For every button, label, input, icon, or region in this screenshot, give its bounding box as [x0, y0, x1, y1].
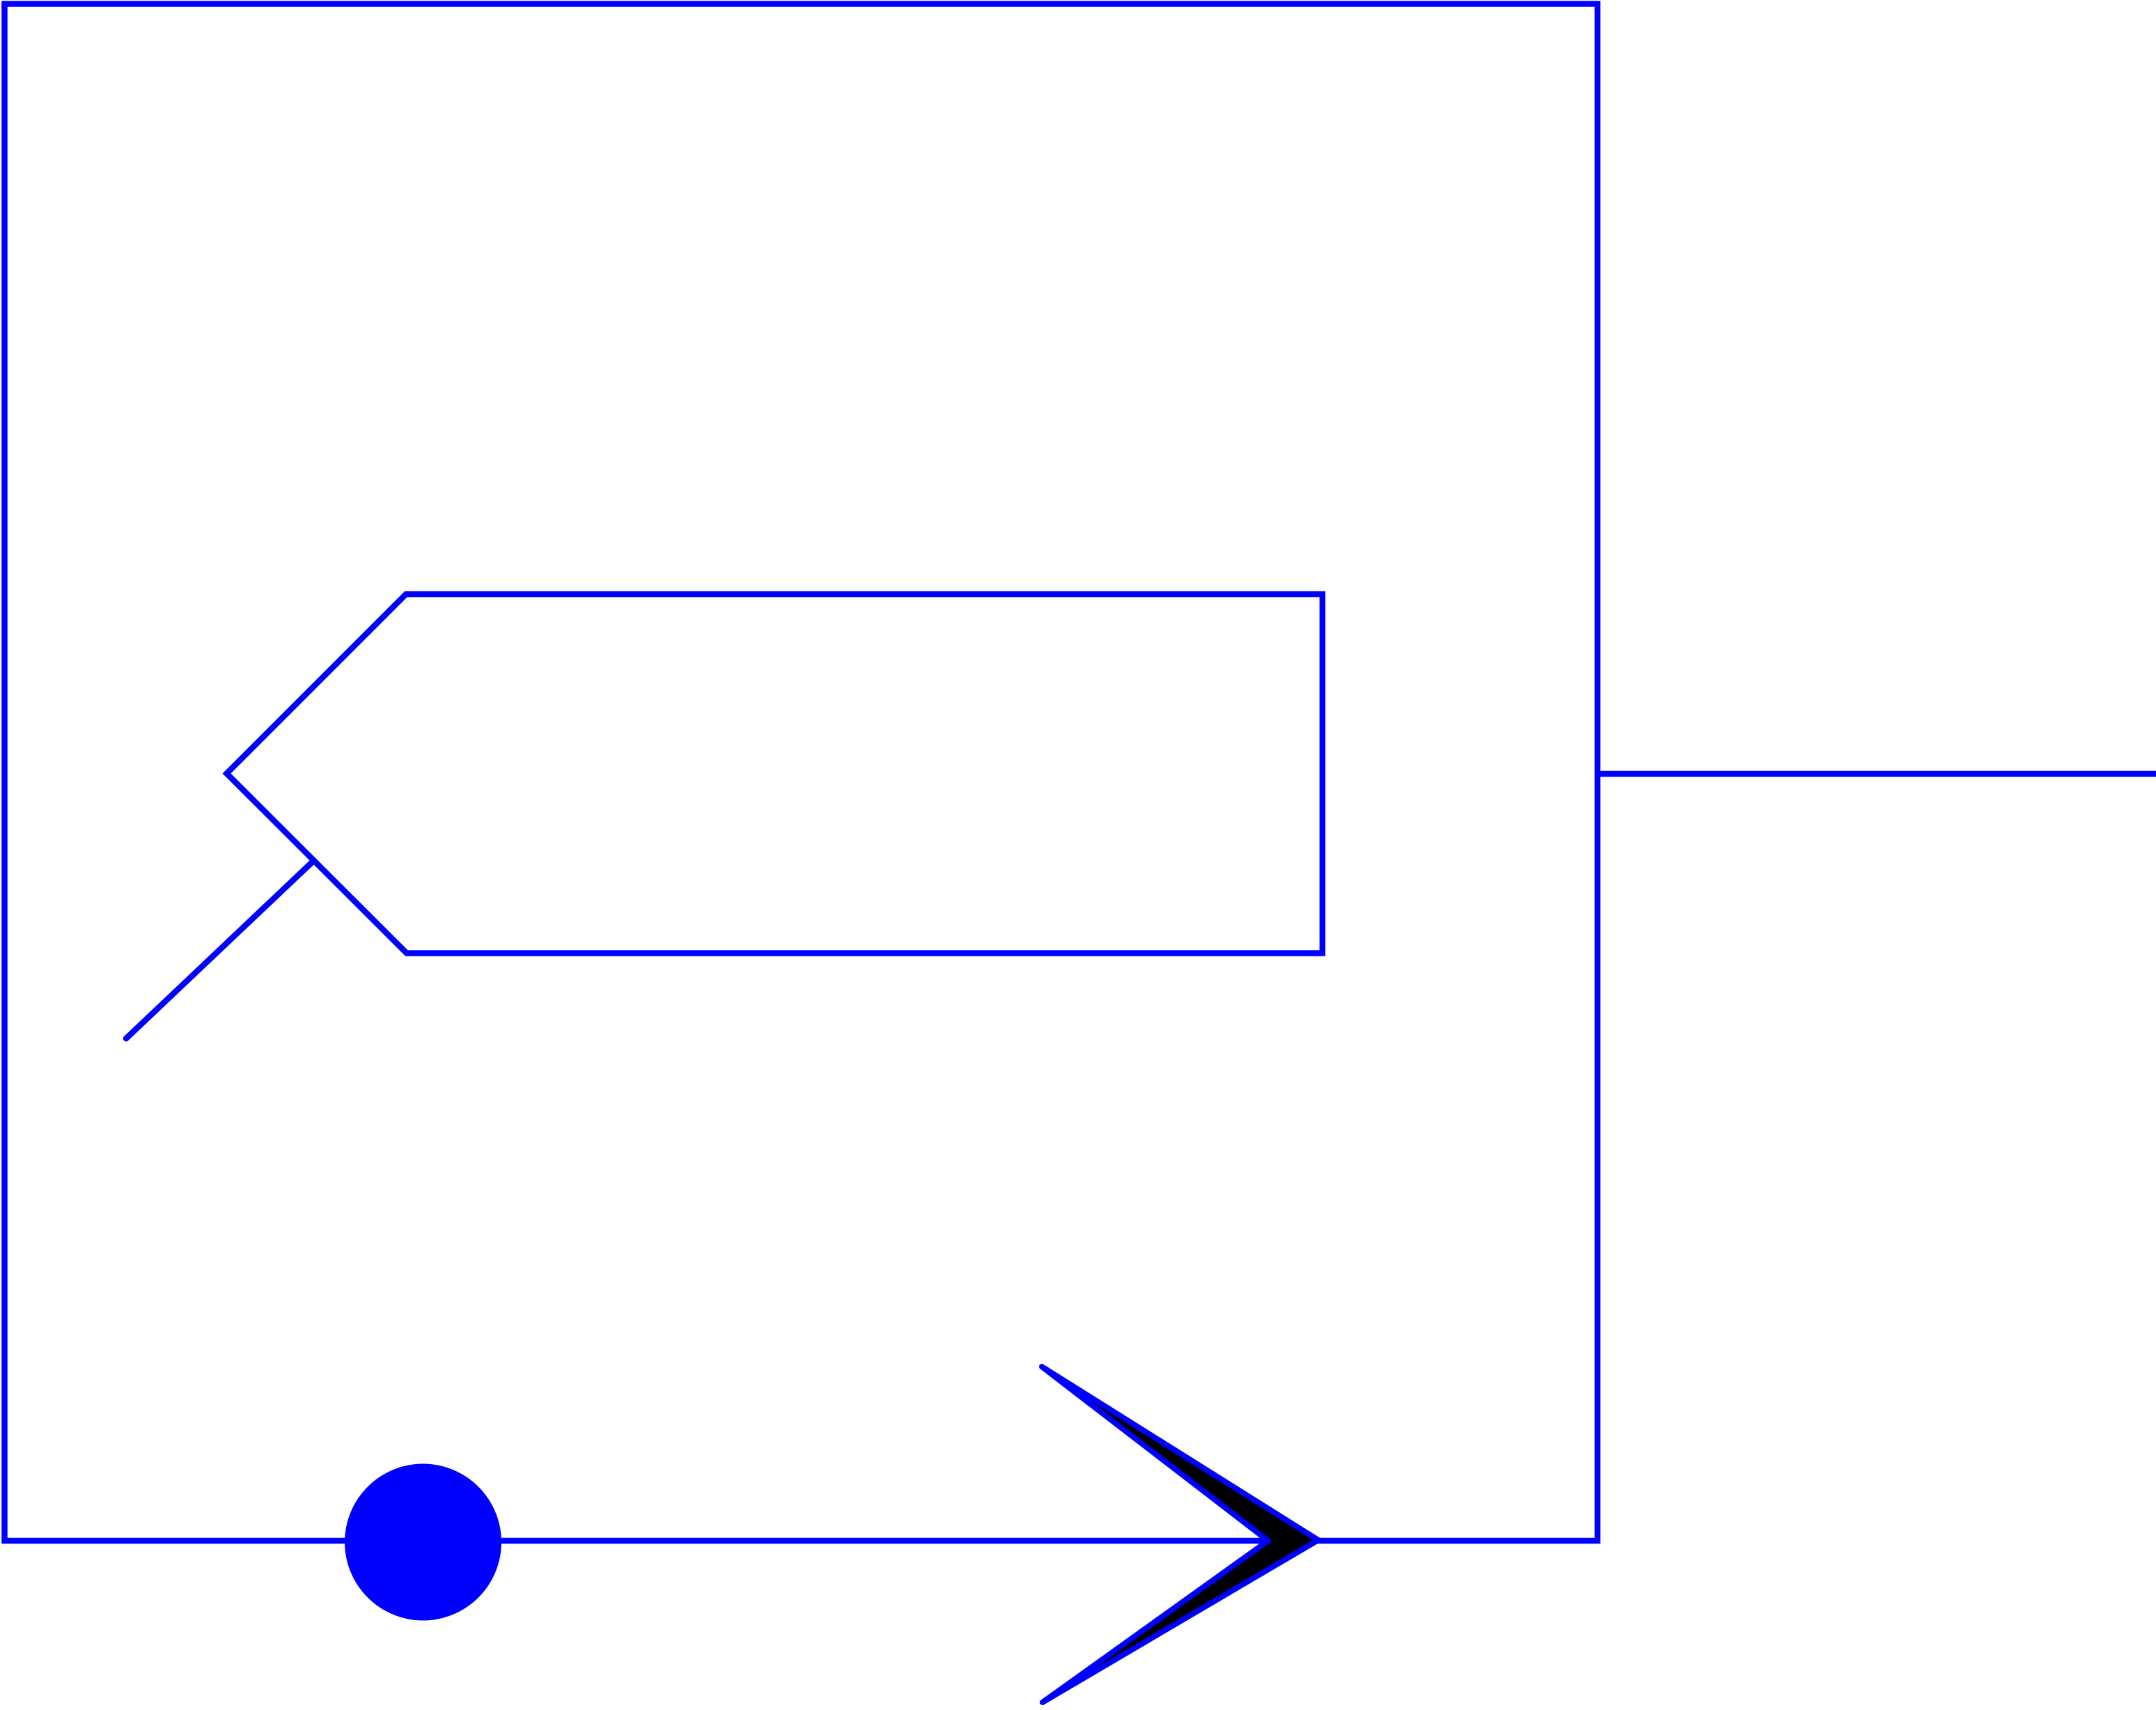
- arrowhead: [1042, 1367, 1318, 1702]
- outer box: [5, 4, 1598, 1541]
- junction dot: [345, 1464, 501, 1621]
- output wire: [1598, 771, 2156, 777]
- pentagon tag: [227, 594, 1323, 954]
- branch line: [126, 862, 312, 1039]
